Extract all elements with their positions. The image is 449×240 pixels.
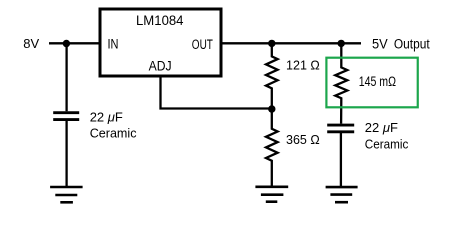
svg-text:22 μF: 22 μF	[365, 120, 398, 135]
svg-text:OUT: OUT	[192, 37, 213, 52]
svg-text:365 Ω: 365 Ω	[286, 132, 320, 147]
svg-text:Ceramic: Ceramic	[365, 137, 409, 152]
svg-text:ADJ: ADJ	[149, 59, 172, 74]
svg-text:8V: 8V	[23, 36, 39, 51]
svg-text:5V: 5V	[372, 37, 388, 52]
svg-text:121 Ω: 121 Ω	[286, 57, 320, 72]
svg-text:Output: Output	[394, 37, 430, 52]
svg-text:145 mΩ: 145 mΩ	[359, 74, 396, 89]
svg-text:IN: IN	[108, 36, 119, 51]
svg-text:LM1084: LM1084	[136, 13, 184, 28]
svg-text:22 μF: 22 μF	[90, 109, 123, 124]
svg-text:Ceramic: Ceramic	[90, 125, 137, 140]
